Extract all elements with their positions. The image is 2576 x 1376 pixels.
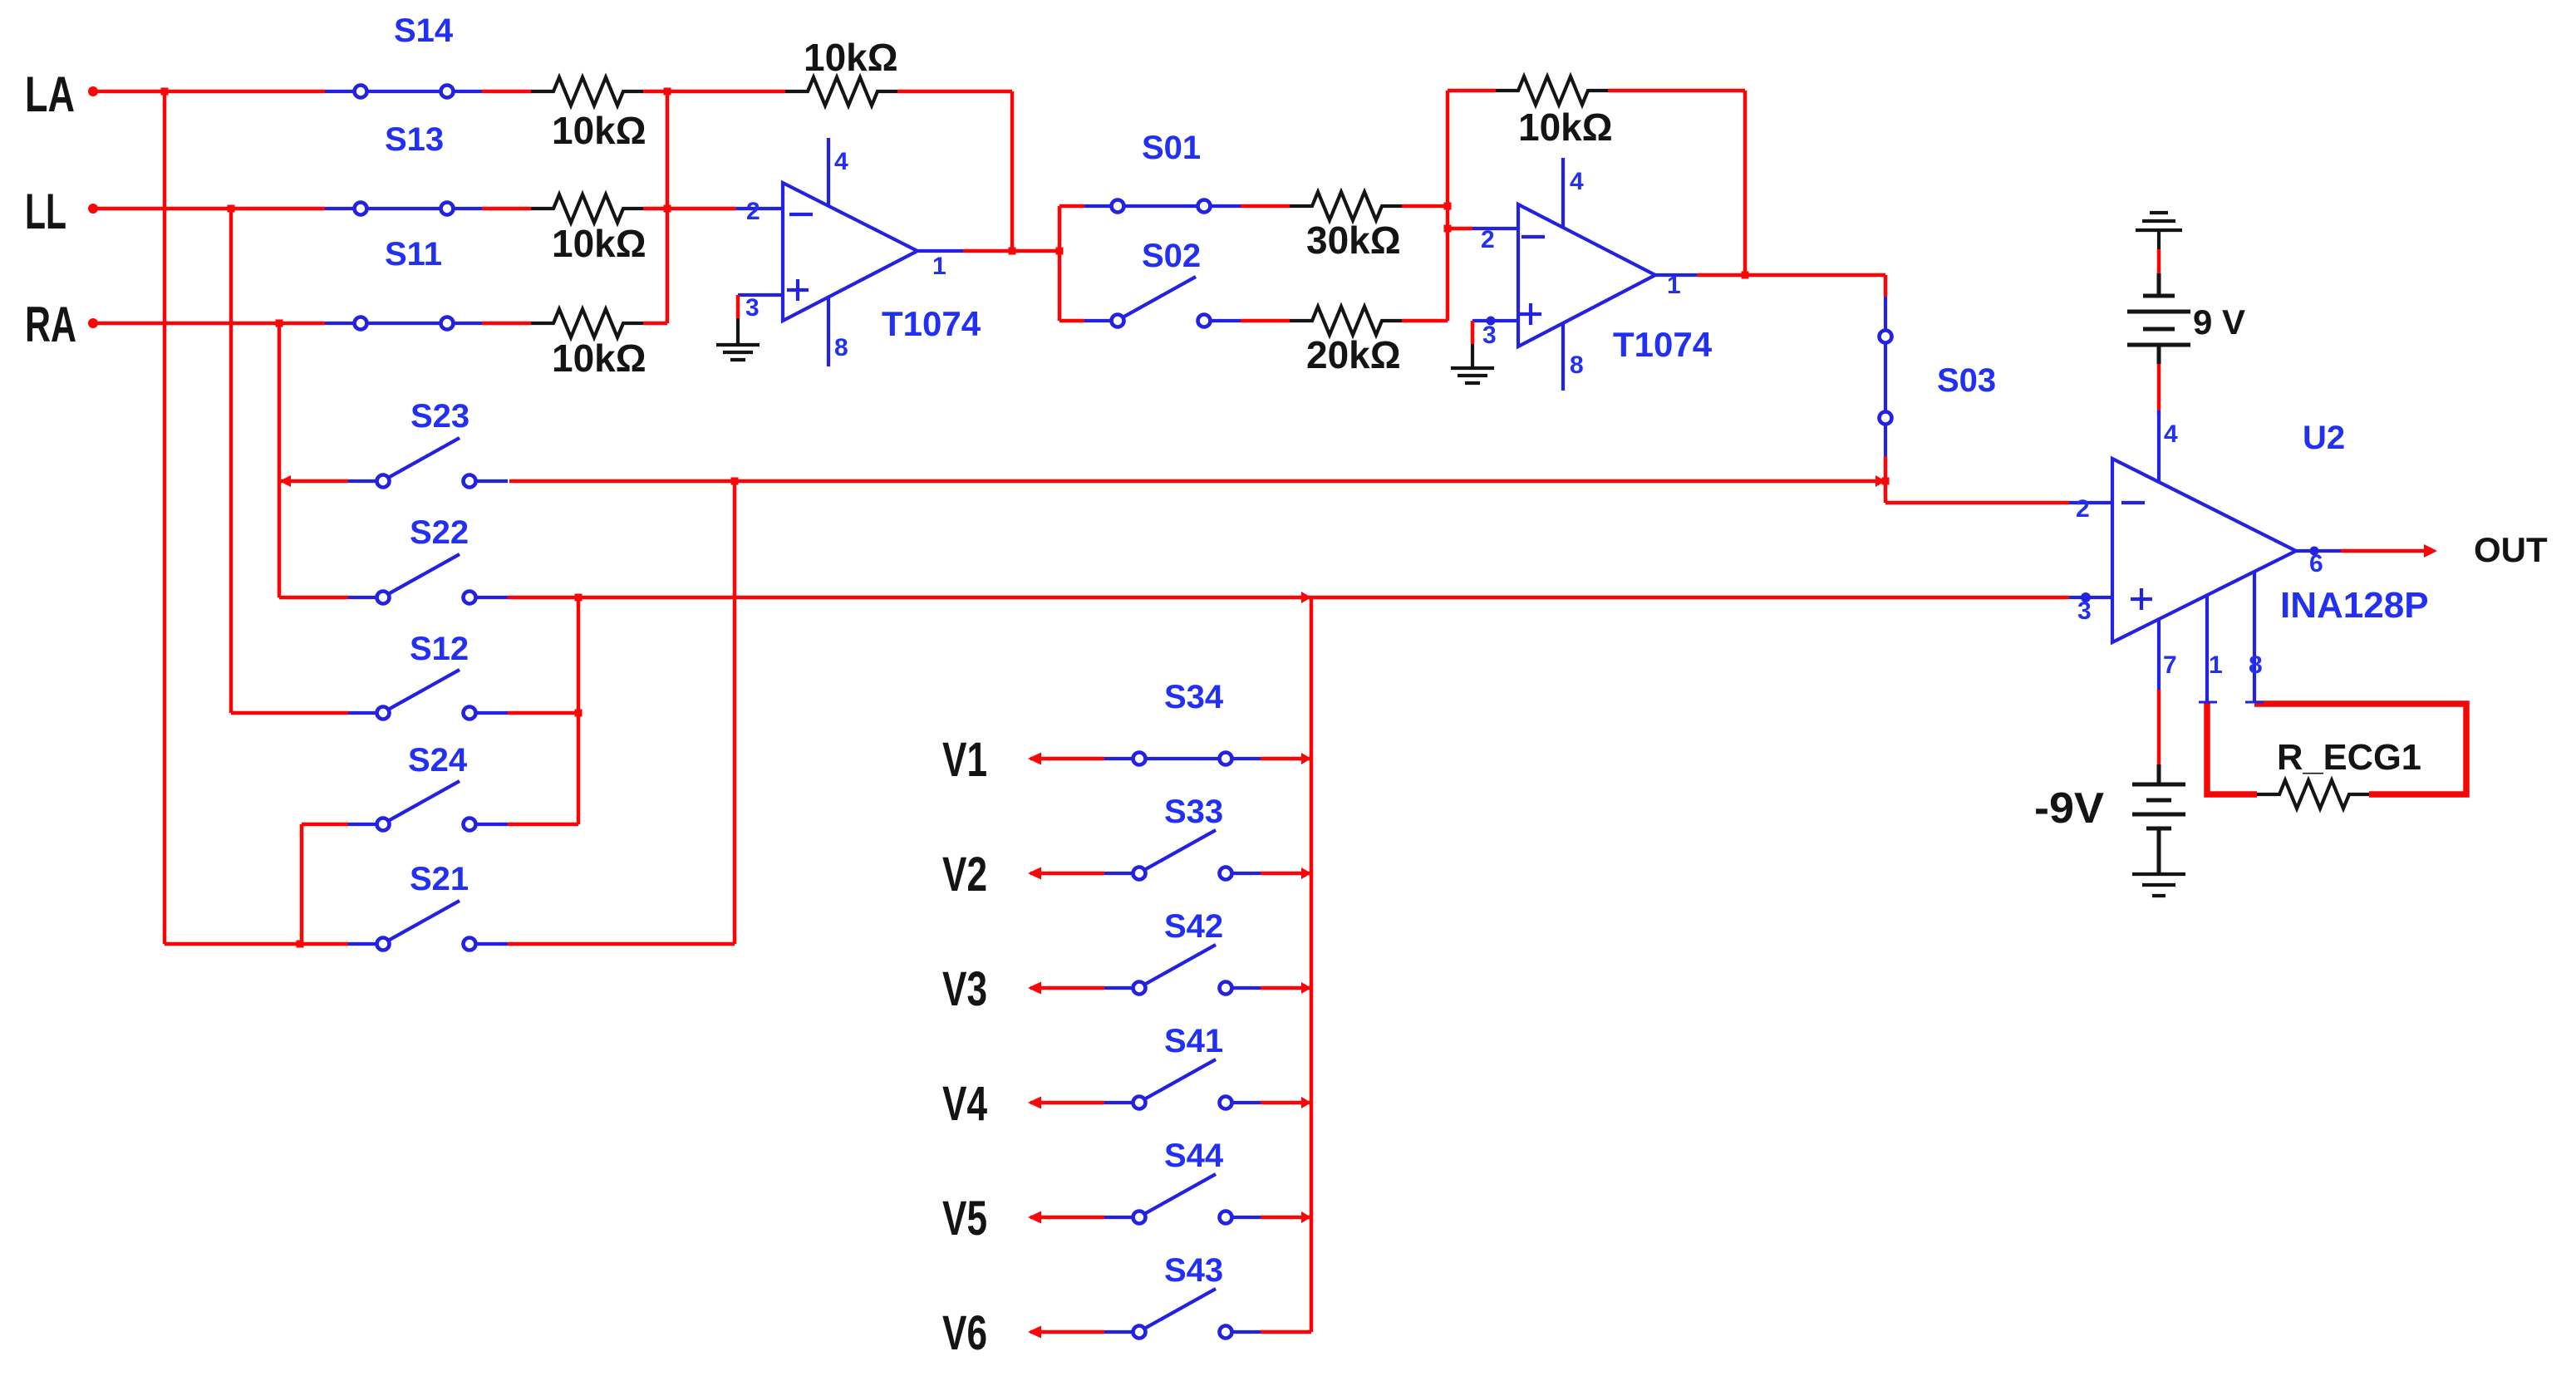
switch S22 contacts: [377, 592, 390, 604]
wire RA net horizontal: [93, 322, 325, 326]
OPAMPS: [736, 138, 2341, 703]
junction op-amp2 output feedback: [1742, 272, 1749, 279]
svg-text:6: 6: [2309, 550, 2323, 577]
pin labels op-amp U1A: [745, 148, 2323, 679]
wire op-amp1 output to branch: [963, 249, 1059, 253]
wire 9V battery stubs: [2157, 249, 2161, 410]
switch S11 contacts: [355, 317, 367, 330]
wire LL vertical bus to S12: [229, 209, 234, 713]
switch S02 (open) wire: [1084, 277, 1241, 321]
resistor R 10k row LA: [531, 77, 643, 106]
svg-text:10kΩ: 10kΩ: [804, 36, 898, 79]
svg-text:3: 3: [1482, 322, 1497, 349]
resistor R 10k feedback op-amp2: [1496, 76, 1608, 105]
wire S21 to S23 vertical riser: [508, 481, 735, 944]
wire feedback2 loop: [1448, 91, 1745, 275]
op-amp U2 output stub: [2296, 549, 2341, 553]
svg-text:4: 4: [834, 148, 848, 175]
svg-text:R_ECG1: R_ECG1: [2277, 737, 2421, 778]
switch S22 (open) wire: [348, 554, 508, 597]
svg-text:S33: S33: [1164, 794, 1223, 830]
wire 9V to U2 pin4: [2157, 410, 2161, 415]
svg-text:S03: S03: [1937, 362, 1996, 399]
wire LA net horizontal: [93, 90, 325, 94]
junction S21 riser to S24: [297, 941, 304, 948]
svg-text:S11: S11: [385, 236, 442, 273]
junction V1 bus: [1301, 753, 1311, 764]
op-amp U2 pin7 stub: [2157, 619, 2161, 690]
svg-text:20kΩ: 20kΩ: [1306, 333, 1401, 376]
op-amp U2 pin3 dot: [2081, 592, 2091, 602]
junction S12 tie: [575, 710, 583, 717]
node V2 pin arrow: [1028, 867, 1041, 880]
SWITCHES: [325, 91, 1885, 1332]
switch S21 (open) wire: [348, 901, 508, 944]
junction V5 bus: [1301, 1211, 1311, 1223]
svg-text:-9V: -9V: [2034, 784, 2104, 833]
GROUNDS AND BATTERIES: [716, 213, 2190, 896]
svg-text:S01: S01: [1142, 130, 1201, 166]
resistor R 20k: [1290, 307, 1402, 335]
svg-text:S14: S14: [394, 12, 454, 49]
op-amp U2 INA128P body: [2112, 459, 2296, 642]
switch S44 (open) wire: [1104, 1174, 1261, 1217]
svg-text:S23: S23: [410, 398, 469, 435]
switch S23 (open) wire: [348, 438, 508, 481]
battery 9V plates: [2127, 273, 2190, 364]
svg-text:S21: S21: [410, 861, 469, 897]
svg-text:S02: S02: [1142, 238, 1201, 274]
junction RA arrow at S23: [279, 475, 291, 487]
ground op-amp2 pin3: [1451, 344, 1494, 383]
op-amp U1B pin3 stub: [1472, 319, 1518, 322]
svg-text:1: 1: [1667, 272, 1681, 299]
switch S12 (open) wire: [348, 670, 508, 713]
op-amp U1B pin3 dot: [1487, 317, 1496, 326]
junction pin2 stub op-amp2: [1444, 225, 1452, 233]
op-amp U1A pin3 stub: [738, 293, 783, 297]
wire V1 row: [1030, 757, 1311, 761]
svg-text:1: 1: [2209, 651, 2223, 679]
svg-text:OUT: OUT: [2474, 530, 2548, 569]
switch S33 (open) wire: [1104, 830, 1261, 873]
svg-text:8: 8: [1570, 351, 1584, 379]
svg-text:V2: V2: [942, 848, 987, 902]
junction summing node row2: [664, 205, 671, 213]
svg-text:S42: S42: [1164, 908, 1223, 945]
wire S03 bottom to U2 pin2: [1885, 456, 2069, 503]
switch S03 contacts: [1880, 331, 1892, 343]
switch S34 (closed) wire: [1104, 757, 1261, 760]
op-amp U1A pin2 stub: [736, 207, 783, 210]
switch S13 contacts: [355, 203, 367, 215]
svg-text:RA: RA: [25, 297, 76, 352]
switch S21 contacts: [377, 938, 390, 951]
op-amp U1B pin8 stub: [1561, 323, 1565, 391]
svg-text:V5: V5: [942, 1192, 987, 1246]
svg-text:S44: S44: [1164, 1138, 1224, 1174]
wire op-amp1 pin3 corner: [736, 295, 740, 318]
junction summing node top: [664, 88, 671, 96]
wire V2 row: [1030, 872, 1311, 876]
svg-text:T1074: T1074: [882, 304, 981, 343]
op-amp U1A plus sign: [787, 279, 809, 301]
svg-text:V3: V3: [942, 962, 987, 1016]
svg-text:S22: S22: [410, 514, 469, 551]
op-amp U1A output stub: [917, 249, 963, 253]
op-amp U2 plus sign: [2131, 588, 2152, 610]
op-amp U2 pin8 stub: [2253, 572, 2256, 702]
op-amp U2 pin8 tick: [2245, 701, 2264, 704]
svg-text:2: 2: [746, 198, 760, 225]
switch S13 (closed) wire: [325, 207, 482, 210]
svg-text:10kΩ: 10kΩ: [552, 337, 646, 380]
wire U2 output to OUT: [2341, 549, 2428, 553]
switch S44 contacts: [1133, 1211, 1146, 1224]
op-amp U1B minus sign: [1522, 235, 1545, 238]
junction RA vert: [276, 320, 283, 327]
op-amp U2 pin4 stub: [2157, 410, 2161, 483]
wire row2 resistor to op-amp pin2: [482, 207, 736, 211]
svg-text:INA128P: INA128P: [2280, 585, 2429, 626]
wire S01/S02 branch vertical: [1059, 206, 1084, 321]
junction S03 bottom: [1875, 475, 1885, 487]
wire feedback1 loop: [667, 91, 1012, 251]
svg-text:V1: V1: [942, 733, 987, 787]
switch S01 (closed) wire: [1084, 204, 1241, 208]
svg-text:2: 2: [1481, 226, 1495, 253]
ground -9V battery bottom: [2132, 874, 2185, 896]
svg-text:LL: LL: [25, 184, 66, 239]
wire op-amp2 pin3 corner: [1471, 321, 1475, 344]
wire RA vertical bus to S22: [278, 323, 282, 597]
wire R_ECG1 thick loop: [2207, 703, 2466, 794]
switch S02 contacts: [1112, 315, 1124, 327]
junction S22 tie top: [575, 594, 583, 602]
node V3 pin arrow: [1028, 982, 1041, 995]
wire row3 resistor leads: [482, 322, 667, 326]
svg-text:S41: S41: [1164, 1023, 1223, 1059]
resistor R 30k: [1290, 192, 1402, 220]
svg-text:S34: S34: [1164, 679, 1224, 715]
switch S43 contacts: [1133, 1326, 1146, 1339]
node RA pin: [88, 318, 98, 328]
svg-text:V4: V4: [942, 1077, 987, 1131]
node LA pin: [88, 86, 98, 96]
switch S42 contacts: [1133, 982, 1146, 995]
svg-text:V6: V6: [942, 1306, 987, 1360]
junction LA vert: [161, 88, 169, 96]
switch S42 (open) wire: [1104, 945, 1261, 988]
junction V2 bus: [1301, 867, 1311, 879]
node V6 pin arrow: [1028, 1326, 1041, 1339]
wire V4 row: [1030, 1101, 1311, 1105]
switch S24 (open) wire: [348, 781, 508, 824]
svg-text:9 V: 9 V: [2193, 302, 2245, 342]
switch S12 contacts: [377, 707, 390, 720]
svg-text:S13: S13: [385, 121, 444, 158]
wire U2 pin7 to -9V battery: [2157, 690, 2161, 764]
switch S43 (open) wire: [1104, 1289, 1261, 1332]
switch S14 contacts: [355, 86, 367, 98]
svg-text:S24: S24: [408, 742, 468, 779]
switch S34 contacts: [1133, 753, 1146, 765]
svg-text:U2: U2: [2303, 420, 2345, 456]
wire V3 row: [1030, 986, 1311, 990]
svg-text:10kΩ: 10kΩ: [1518, 106, 1613, 149]
svg-text:3: 3: [745, 294, 760, 322]
wire S22/S12/S24 vertical tie: [508, 597, 578, 824]
svg-text:8: 8: [2249, 651, 2263, 679]
svg-text:4: 4: [1570, 168, 1584, 195]
node V1 pin arrow: [1028, 753, 1041, 765]
wire row1 resistor leads: [482, 90, 667, 94]
junction S01/S02 branch: [1056, 248, 1064, 255]
op-amp U2 minus sign: [2121, 501, 2145, 504]
op-amp U1B plus sign: [1520, 303, 1541, 325]
op-amp U1A minus sign: [789, 213, 813, 216]
wire V bus vertical: [1310, 597, 1314, 1332]
svg-text:8: 8: [834, 334, 848, 361]
node LL pin: [88, 204, 98, 214]
wire S21 left lead: [165, 942, 348, 946]
svg-text:7: 7: [2163, 651, 2177, 679]
svg-text:T1074: T1074: [1613, 325, 1713, 364]
wire V6 row: [1030, 1330, 1311, 1334]
switch S33 contacts: [1133, 867, 1146, 880]
wire S24 left lead and riser to S21: [302, 824, 348, 944]
junction LL vert: [228, 205, 235, 213]
op-amp U2 pin3 stub: [2069, 596, 2112, 599]
wire S22 net long run to U2 pin3: [279, 596, 2069, 600]
node V5 pin arrow: [1028, 1211, 1041, 1224]
svg-text:10kΩ: 10kΩ: [552, 109, 646, 152]
op-amp U1A pin4 stub: [827, 138, 830, 207]
wire S23 net long run: [279, 479, 1885, 484]
wire inverting node vertical op-amp2: [1446, 91, 1450, 321]
wire S02 to 20k: [1241, 319, 1448, 323]
junction V3 bus: [1301, 982, 1311, 994]
node OUT pin arrow: [2424, 544, 2437, 558]
resistor R 10k row LL: [531, 194, 643, 223]
wire pin2 stub op-amp2: [1448, 227, 1472, 231]
junction V bus top: [1301, 592, 1311, 603]
op-amp U1B pin4 stub: [1561, 158, 1565, 227]
wire LL net horizontal: [93, 207, 325, 211]
svg-text:S43: S43: [1164, 1252, 1223, 1289]
resistor R_ECG1: [2257, 780, 2369, 808]
switch S01 contacts: [1112, 200, 1124, 213]
svg-text:S12: S12: [410, 631, 469, 667]
switch S24 contacts: [377, 818, 390, 831]
junction 30k at inverting node: [1444, 203, 1452, 210]
svg-text:30kΩ: 30kΩ: [1306, 219, 1401, 262]
op-amp U1B pin2 stub: [1472, 227, 1518, 230]
wire V5 row: [1030, 1216, 1311, 1220]
wire S12 left lead: [231, 711, 348, 715]
switch S23 contacts: [377, 475, 390, 488]
node V4 pin arrow: [1028, 1097, 1041, 1109]
junction S23 riser: [731, 478, 739, 485]
op-amp U1B T1074 body: [1518, 204, 1655, 346]
switch S14 (closed) wire: [325, 90, 482, 93]
switch S41 contacts: [1133, 1097, 1146, 1109]
op-amp U2 pin1 tick: [2199, 701, 2217, 704]
op-amp U1B output stub: [1655, 273, 1697, 277]
op-amp U2 output dot: [2310, 547, 2319, 556]
red corner stubs at grounds: [738, 295, 1472, 344]
ground op-amp1 pin3: [716, 318, 760, 360]
svg-text:10kΩ: 10kΩ: [552, 222, 646, 265]
resistor R 10k feedback op-amp1: [785, 77, 897, 106]
wire S01 to 30k: [1241, 204, 1448, 209]
op-amp U2 pin1 stub: [2205, 595, 2209, 703]
switch S11 (closed) wire: [325, 322, 482, 325]
switch S03 (closed vertical) wire: [1884, 297, 1887, 456]
svg-text:3: 3: [2077, 597, 2092, 625]
resistor R 10k row RA: [531, 309, 643, 337]
wire LA vertical bus to S21: [163, 91, 167, 944]
junction V4 bus: [1301, 1097, 1311, 1108]
wire op-amp2 output to S03: [1697, 275, 1885, 297]
switch contact circles: [355, 86, 1892, 1339]
svg-text:2: 2: [2076, 495, 2090, 523]
blue battery stub to U2 pin4: [2157, 410, 2161, 415]
op-amp U2 pin2 stub: [2069, 501, 2112, 504]
ground 9V battery top (inverted): [2136, 213, 2182, 249]
op-amp U1A pin8 stub: [827, 297, 830, 366]
junction op-amp1 output feedback: [1009, 248, 1016, 255]
svg-text:1: 1: [932, 253, 946, 280]
op-amp U1A T1074 body: [783, 183, 917, 321]
svg-text:4: 4: [2164, 420, 2178, 448]
svg-text:LA: LA: [25, 66, 75, 122]
battery -9V plates: [2132, 764, 2185, 874]
switch S41 (open) wire: [1104, 1059, 1261, 1103]
wire summing node vertical: [666, 91, 670, 323]
